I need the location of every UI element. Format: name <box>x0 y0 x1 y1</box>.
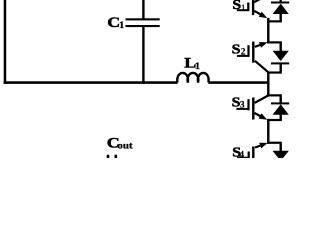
transistor S3 gate underline <box>236 108 249 110</box>
wire: bottom rail left segment <box>4 81 178 84</box>
transistor S1 collector diagonal <box>254 0 261 2</box>
wire: jumper node S2 emitter to D2 <box>267 41 282 43</box>
transistor S2 main bar <box>252 42 254 63</box>
label S4 <box>232 146 241 160</box>
wire: leg segment S1 emitter to S2 node <box>267 18 269 44</box>
svg-text:3: 3 <box>240 99 245 109</box>
wire: jumper node S1 emitter to D1 <box>267 20 282 22</box>
diode D3 cathode bar <box>271 102 289 104</box>
transistor S3 emitter diagonal <box>255 113 265 118</box>
wire: bottom rail right segment <box>208 81 269 84</box>
transistor S4 gate underline <box>237 157 249 159</box>
svg-text:1: 1 <box>241 3 245 12</box>
wire: diode D2 cathode lead <box>280 64 282 72</box>
label S3 <box>232 96 241 110</box>
svg-text:out: out <box>117 141 133 151</box>
transistor S4 emitter arrow <box>259 143 268 149</box>
svg-text:1: 1 <box>195 62 200 72</box>
capacitor C1 top lead <box>142 0 144 19</box>
diode D3 body <box>273 104 289 114</box>
transistor S3 emitter arrow <box>259 113 268 119</box>
label C1 <box>107 13 120 30</box>
transistor S3 collector diagonal <box>255 95 269 103</box>
transistor S2 emitter arrow <box>259 42 268 48</box>
transistor S4 main bar <box>252 147 254 159</box>
wire: diode D1 anode lead <box>280 14 282 21</box>
svg-text:2: 2 <box>241 47 246 57</box>
wire: jumper S3 collector to D3 <box>267 94 282 96</box>
label Cout <box>107 134 120 151</box>
wire: jumper S4 emitter to D4 <box>267 142 282 144</box>
diode D4 body <box>273 151 289 161</box>
transistor S1 emitter arrow <box>259 12 268 19</box>
transistor S4 gate bar <box>248 152 250 159</box>
wire: jumper S2 collector to D2 <box>267 71 282 73</box>
capacitor Cout right plate tip <box>115 155 118 158</box>
wire: diode D2 anode lead <box>280 43 282 51</box>
svg-text:S: S <box>232 43 241 57</box>
inductor L1 coil <box>177 73 208 83</box>
capacitor C1 bottom plate <box>126 25 160 27</box>
label S2 <box>232 43 241 57</box>
svg-text:S: S <box>232 0 241 13</box>
svg-text:4: 4 <box>239 150 244 158</box>
diode D2 body <box>273 51 289 61</box>
label L1 <box>184 54 196 71</box>
transistor S1 emitter diagonal <box>254 11 264 16</box>
wire: leg segment S2 collector to S3 collector <box>267 72 269 97</box>
diode D1 cathode bar <box>271 2 289 4</box>
wire: diode branch D1 top <box>280 0 282 3</box>
transistor S1 gate bar <box>247 3 249 12</box>
svg-text:1: 1 <box>119 20 124 30</box>
transistor S1 main bar <box>252 0 254 15</box>
transistor S2 collector diagonal <box>255 61 269 73</box>
wire: diode D3 cathode lead <box>280 96 282 102</box>
transistor S2 gate underline <box>237 55 249 57</box>
wire: diode D4 anode lead <box>280 144 282 151</box>
transistor S4 emitter diagonal <box>255 145 264 148</box>
transistor S3 gate bar <box>247 99 249 110</box>
transistor S3 main bar <box>252 98 254 120</box>
transistor S1 gate underline <box>237 9 249 11</box>
transistor S2 gate bar <box>247 45 249 57</box>
wire: diode D3 anode lead <box>280 115 282 120</box>
capacitor Cout left plate tip <box>107 155 110 158</box>
diode D2 cathode bar <box>271 62 289 64</box>
capacitor C1 bottom lead <box>142 27 144 84</box>
label S1 <box>232 0 241 13</box>
wire: leg segment S3 emitter to S4 node <box>267 119 269 144</box>
transistor S2 emitter diagonal <box>255 44 263 47</box>
diode D1 body <box>273 4 289 14</box>
capacitor C1 top plate <box>126 18 160 20</box>
wire: jumper S3 emitter to D3 <box>267 119 282 121</box>
wire: left input vertical <box>4 0 7 84</box>
